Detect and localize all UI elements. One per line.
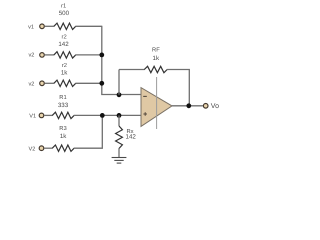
wire v2 terminal to r2 (row 3): [45, 82, 54, 84]
wire op-amp output: [172, 105, 203, 107]
svg-text:v2: v2: [28, 82, 34, 88]
resistor R1: [52, 112, 74, 118]
svg-text:v1: v1: [28, 24, 34, 30]
wire Rx lower lead: [118, 148, 120, 157]
junction dot noninverting node (R3 riser): [100, 113, 105, 118]
resistor R3: [52, 145, 74, 151]
junction dot inverting input / feedback tap: [117, 92, 122, 97]
wire v2 terminal to r2 (row 2): [45, 54, 54, 56]
wire v1 terminal to r1: [45, 25, 54, 27]
svg-text:RF: RF: [152, 48, 160, 54]
junction dot noninverting node (Rx tap): [117, 113, 122, 118]
wire R1 to noninverting input: [74, 114, 141, 116]
inverting input bus wire: [102, 26, 141, 94]
resistor r1: [54, 23, 76, 29]
input terminal v1: [40, 24, 45, 29]
svg-text:500: 500: [59, 10, 70, 17]
op-amp V+ / V- power pins: [156, 77, 158, 129]
svg-text:1k: 1k: [61, 70, 68, 77]
op-amp noninverting input marker: [143, 113, 147, 115]
wire r1 to inverting bus: [75, 25, 102, 27]
op-amp inverting input marker: [143, 95, 147, 97]
svg-text:v2: v2: [28, 53, 34, 59]
wire feedback top right segment: [167, 70, 189, 106]
wire feedback riser (left): [118, 70, 120, 95]
input terminal v2 (row 2): [40, 53, 45, 58]
wire r2 to inverting bus (row 3): [75, 82, 102, 84]
svg-text:R1: R1: [59, 95, 66, 101]
svg-text:R3: R3: [59, 125, 66, 132]
wire R3 riser to noninverting node: [74, 115, 103, 148]
wire feedback top left segment: [119, 69, 145, 71]
svg-text:Vo: Vo: [211, 103, 219, 110]
wire V1 terminal to R1: [44, 114, 52, 116]
input terminal v2 (row 3): [40, 81, 45, 86]
resistor RF: [144, 66, 167, 72]
junction dot bus row 3: [99, 81, 104, 86]
svg-text:1k: 1k: [60, 133, 67, 140]
svg-text:142: 142: [58, 41, 69, 48]
svg-text:142: 142: [126, 134, 137, 141]
svg-text:1k: 1k: [153, 55, 160, 62]
ground: [112, 158, 127, 164]
svg-text:r2: r2: [62, 34, 67, 41]
resistor r2 (142): [54, 52, 76, 58]
wire r2 to inverting bus (row 2): [75, 54, 102, 56]
svg-text:r2: r2: [62, 62, 67, 69]
wire V2 terminal to R3: [44, 147, 52, 149]
input terminal V2: [39, 146, 44, 151]
svg-text:V1: V1: [29, 114, 36, 120]
svg-text:333: 333: [58, 102, 69, 109]
svg-text:r1: r1: [61, 3, 66, 9]
junction dot bus row 2: [99, 53, 104, 58]
svg-text:V2: V2: [28, 147, 35, 153]
input terminal V1: [39, 113, 44, 118]
output terminal Vo: [203, 104, 208, 109]
op-amp U1: [141, 77, 172, 129]
junction dot output node: [186, 103, 191, 108]
wire Rx upper lead: [118, 115, 120, 126]
resistor Rx: [116, 126, 123, 149]
resistor r2 (1k): [54, 80, 76, 86]
